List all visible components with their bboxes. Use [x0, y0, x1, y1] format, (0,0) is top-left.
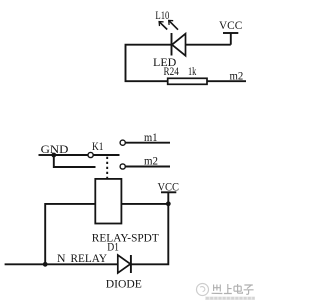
resistor R24 — [168, 78, 207, 84]
watermark — [197, 284, 209, 296]
svg-text:1k: 1k — [188, 64, 196, 78]
relay K1 throw contact 1 — [120, 140, 125, 145]
svg-text:RELAY: RELAY — [71, 251, 108, 265]
relay K1 coil — [95, 179, 121, 224]
svg-text:N: N — [57, 251, 66, 265]
svg-text:L10: L10 — [155, 8, 169, 22]
svg-text:R24: R24 — [164, 64, 179, 78]
wire coil pin 1 to left rail — [45, 204, 95, 264]
wire N RELAY stub left — [5, 263, 46, 265]
svg-text:m1: m1 — [144, 130, 158, 144]
junction VCC rail — [166, 201, 171, 206]
node N RELAY — [57, 251, 107, 265]
power symbol VCC (middle) — [158, 180, 180, 204]
diode D1 — [118, 255, 131, 273]
relay K1 arm — [93, 154, 119, 156]
wire VCC to LED anode — [186, 44, 231, 46]
relay K1 pole contact — [88, 152, 93, 157]
wire LED cathode to resistor R24 — [126, 45, 172, 81]
ground GND — [39, 142, 69, 156]
LED L10 — [159, 20, 185, 55]
wire GND to relay pole — [54, 154, 88, 156]
junction N RELAY net — [43, 262, 48, 267]
relay K1 actuator dashed link — [106, 157, 108, 179]
wire throw 2 to node m2 — [125, 166, 170, 168]
wire resistor to node m2 (top) — [207, 80, 246, 82]
svg-text:D1: D1 — [107, 240, 119, 254]
power symbol VCC (top) — [219, 18, 242, 45]
svg-text:VCC: VCC — [219, 18, 242, 32]
wire throw 1 to node m1 — [125, 142, 170, 144]
wire N RELAY to diode anode — [45, 263, 118, 265]
junction on GND net — [51, 153, 56, 158]
svg-text:RELAY-SPDT: RELAY-SPDT — [92, 231, 160, 245]
svg-text:DIODE: DIODE — [106, 276, 142, 290]
svg-text:m2: m2 — [144, 154, 158, 168]
relay K1 throw contact 2 — [120, 164, 125, 169]
wire GND branch down — [54, 155, 96, 167]
wire coil pin 2 to VCC rail — [122, 203, 169, 205]
wire VCC rail to diode cathode — [131, 204, 168, 264]
svg-text:m2: m2 — [230, 69, 244, 83]
svg-text:K1: K1 — [92, 139, 104, 153]
